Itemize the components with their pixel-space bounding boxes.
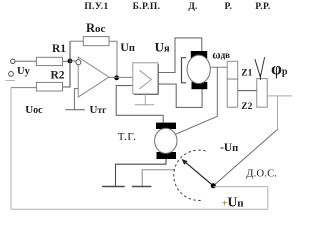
reducer gear Z2 — [227, 79, 238, 107]
wire node A to op-amp input — [70, 60, 76, 62]
block BRP shadow — [157, 64, 159, 94]
wire BRP to motor top — [158, 38, 202, 73]
svg-text:Z1: Z1 — [241, 69, 252, 79]
wire feedback left vertical — [10, 88, 12, 210]
tachogenerator TG brush top — [156, 123, 176, 129]
svg-text:Д.О.С.: Д.О.С. — [246, 169, 277, 180]
op-amp inverting bubble — [76, 60, 81, 65]
svg-text:Uу: Uу — [17, 66, 31, 77]
svg-text:Z2: Z2 — [241, 102, 252, 112]
underline under Uy — [6, 80, 16, 82]
ground 1 bar — [102, 186, 125, 188]
resistor Roc — [83, 37, 109, 46]
wire wiper to right — [213, 186, 267, 188]
svg-text:П.У.1: П.У.1 — [84, 2, 108, 12]
svg-text:R1: R1 — [52, 43, 66, 55]
svg-text:ωдв: ωдв — [212, 50, 230, 62]
shaft motor to reducer — [210, 66, 227, 68]
antenna on RR — [255, 57, 265, 77]
op-amp U1 — [78, 57, 109, 97]
wire feedback right vertical — [267, 187, 269, 210]
reducer gear Z1 — [227, 61, 238, 79]
wire node A up to Roc — [69, 41, 71, 61]
wire apex to node B and to BRP — [109, 76, 133, 78]
wire node A down to R2 — [63, 61, 71, 87]
resistor R2 — [36, 82, 62, 91]
wire RR down — [277, 96, 279, 129]
wire op-amp noninverting input to ground — [74, 89, 78, 110]
mechanical link to pot wiper — [214, 129, 278, 185]
ground BRP stem — [144, 94, 146, 105]
svg-text:-Uп: -Uп — [220, 142, 238, 154]
svg-text:Uос: Uос — [25, 104, 43, 116]
pot wiper arrowhead — [182, 159, 188, 165]
pot wiper node dot — [211, 183, 216, 188]
wire feedback to R2 — [11, 87, 36, 89]
wire RR output to right edge — [267, 95, 292, 97]
wire TG bottom to ground 1 — [116, 159, 167, 186]
ground op-amp — [65, 109, 85, 111]
potentiometer DOS arc — [174, 150, 206, 200]
wire Utg net: BRP input to TG — [116, 86, 163, 123]
motor D armature — [187, 55, 210, 83]
ground BRP bar — [135, 104, 155, 106]
svg-text:Р.: Р. — [225, 2, 233, 12]
svg-text:Rос: Rос — [86, 21, 106, 35]
coupling motor shaft down to TG — [176, 67, 218, 134]
motor D brush top — [191, 51, 207, 59]
svg-text:R2: R2 — [51, 70, 65, 82]
wire input to R1 — [15, 60, 36, 62]
motor field bracket — [182, 58, 187, 83]
svg-text:Д.: Д. — [188, 2, 197, 12]
chevron inside BRP — [139, 70, 151, 89]
svg-text:Б.Р.П.: Б.Р.П. — [133, 2, 161, 12]
pot wiper arm — [184, 161, 214, 186]
wire pot left end to ground 2 — [142, 170, 175, 186]
svg-text:Р.Р.: Р.Р. — [255, 2, 271, 12]
ground 2 bar — [132, 186, 152, 188]
wire Roc left — [70, 40, 83, 42]
node A summing junction dot — [68, 59, 73, 64]
shaft Z2 to RR — [238, 90, 257, 92]
svg-text:Uп: Uп — [120, 40, 135, 54]
svg-text:Т.Г.: Т.Г. — [118, 131, 137, 143]
tachogenerator TG armature — [155, 128, 177, 153]
tachogenerator TG brush bottom — [157, 152, 177, 159]
svg-text:Uтг: Uтг — [90, 104, 108, 116]
terminal Uy minus — [9, 72, 14, 77]
block RR — [257, 79, 267, 108]
wire BRP to motor bottom — [158, 84, 202, 107]
node B output dot — [114, 75, 119, 80]
terminal Uy plus — [11, 59, 15, 63]
wire Roc right to output node — [109, 41, 117, 77]
wire R1 to node A — [63, 60, 69, 62]
block BRP — [133, 63, 158, 94]
resistor R1 — [36, 57, 62, 65]
wire feedback bottom — [11, 208, 268, 210]
motor D brush bottom — [192, 82, 208, 89]
